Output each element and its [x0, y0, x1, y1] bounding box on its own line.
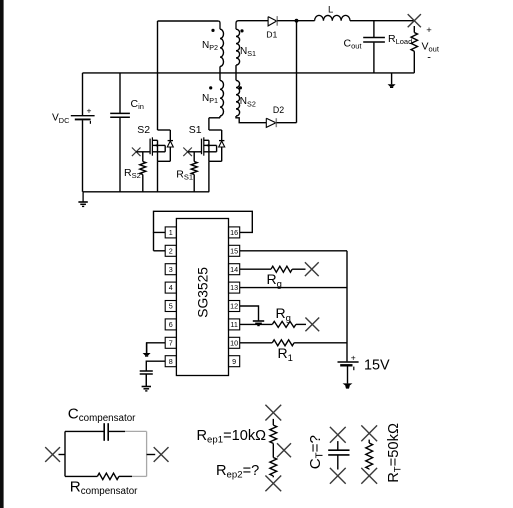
- svg-text:13: 13: [230, 283, 238, 292]
- svg-text:16: 16: [230, 228, 238, 237]
- svg-text:CT=?: CT=?: [307, 435, 326, 469]
- svg-text:D2: D2: [273, 105, 284, 115]
- svg-text:RT=50kΩ: RT=50kΩ: [386, 423, 404, 483]
- svg-text:3: 3: [169, 265, 173, 274]
- svg-text:8: 8: [169, 357, 173, 366]
- svg-text:L: L: [328, 5, 333, 16]
- svg-text:4: 4: [169, 283, 173, 292]
- svg-text:-: -: [427, 51, 431, 63]
- svg-text:6: 6: [169, 320, 173, 329]
- svg-text:Rep1=10kΩ: Rep1=10kΩ: [197, 428, 267, 446]
- svg-text:7: 7: [169, 338, 173, 347]
- svg-text:+: +: [426, 25, 432, 36]
- svg-text:2: 2: [169, 246, 173, 255]
- svg-text:15V: 15V: [364, 357, 390, 373]
- svg-text:12: 12: [230, 302, 238, 311]
- svg-text:1: 1: [169, 228, 173, 237]
- svg-text:15: 15: [230, 246, 238, 255]
- svg-text:10: 10: [230, 338, 238, 347]
- svg-text:11: 11: [230, 320, 237, 329]
- svg-text:14: 14: [230, 265, 238, 274]
- svg-text:SG3525: SG3525: [196, 267, 211, 318]
- svg-text:+: +: [351, 352, 356, 362]
- svg-text:S1: S1: [189, 124, 202, 136]
- svg-text:D1: D1: [266, 30, 277, 40]
- svg-text:+: +: [87, 106, 92, 116]
- svg-text:9: 9: [232, 357, 236, 366]
- svg-text:S2: S2: [137, 124, 150, 136]
- svg-text:5: 5: [169, 302, 173, 311]
